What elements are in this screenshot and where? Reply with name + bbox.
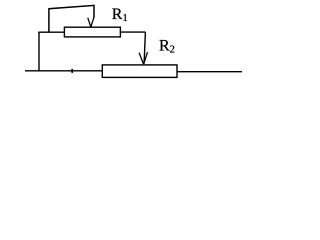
wire : R2 wiper drop line from R1 right lead (144, 32, 145, 63)
wire : loop from R1 left terminal to R1 wiper (up, over, down) (49, 5, 94, 32)
wire : R1 right lead (120, 31, 145, 33)
wiper arrow of R2 (tip touching resistor top) (139, 52, 147, 64)
svg-text:R2: R2 (159, 38, 175, 56)
wire : main bottom wire left segment (25, 70, 103, 72)
resistor R2 body (102, 65, 177, 78)
resistor R1 body (64, 27, 120, 37)
wire : R1 left lead (38, 31, 64, 33)
wire : main bottom wire right segment (177, 71, 242, 73)
junction : small tick on bottom wire (71, 69, 73, 73)
wiper arrow of R1 (tip touching resistor top) (88, 17, 94, 27)
svg-text:R1: R1 (112, 6, 128, 24)
wire : vertical branch from bottom wire up to R1 left lead (38, 32, 40, 71)
